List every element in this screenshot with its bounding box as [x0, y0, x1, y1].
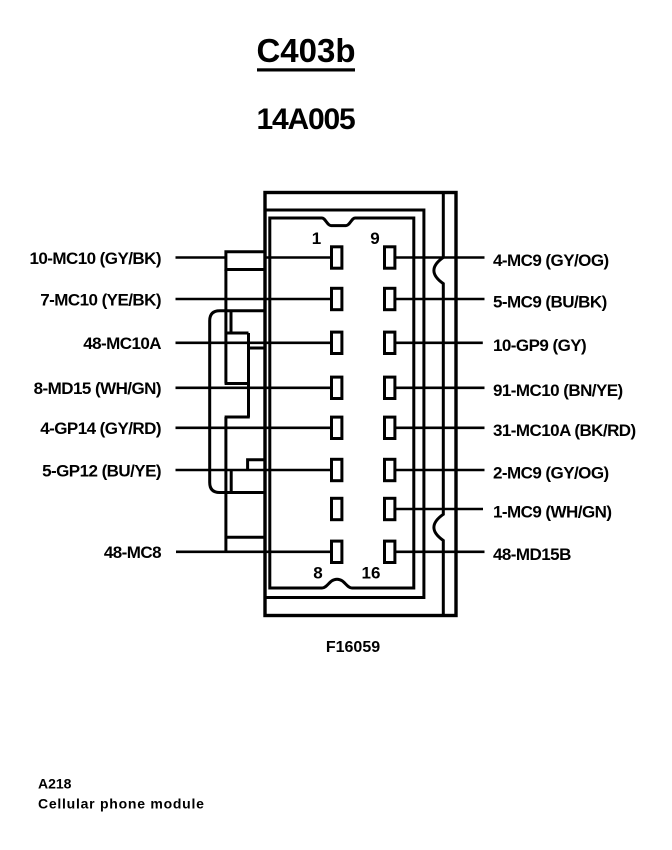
wire left row3 (to pin 3) [176, 341, 332, 344]
pin 4 [332, 377, 342, 398]
svg-text:7-MC10 (YE/BK): 7-MC10 (YE/BK) [40, 290, 161, 309]
svg-text:91-MC10 (BN/YE): 91-MC10 (BN/YE) [493, 381, 623, 400]
pin 10 [385, 288, 395, 309]
pin 12 [385, 377, 395, 398]
connector housing (keyed inner rectangle) [270, 218, 414, 588]
pin 6 [332, 459, 342, 480]
pin 14 [385, 459, 395, 480]
wire right row4 (to pin 12) [395, 386, 485, 389]
wire right row8 (to pin 16) [395, 550, 485, 553]
left strip mid segment [224, 333, 227, 384]
connector outer shell [265, 193, 456, 616]
svg-text:A218: A218 [38, 776, 72, 792]
step tab vertical at clip top [230, 311, 233, 333]
left mounting strip upper edge [224, 270, 227, 334]
pin 15 [385, 498, 395, 519]
pin 11 [385, 332, 395, 353]
step ledge under row3 [249, 347, 266, 350]
strip vertical row6 to clip bottom [230, 470, 233, 493]
svg-text:10-GP9 (GY): 10-GP9 (GY) [493, 336, 586, 355]
svg-text:8: 8 [313, 564, 322, 583]
pin 5 [332, 417, 342, 438]
svg-text:4-GP14 (GY/RD): 4-GP14 (GY/RD) [40, 419, 161, 438]
svg-text:31-MC10A (BK/RD): 31-MC10A (BK/RD) [493, 421, 636, 440]
svg-text:8-MD15 (WH/GN): 8-MD15 (WH/GN) [34, 379, 161, 398]
pin 1 [332, 247, 342, 268]
left strip lower segment [224, 417, 227, 552]
left mounting strip top box [226, 252, 266, 270]
step ledge row4-5 [225, 416, 250, 419]
wire left row5 (to pin 5) [176, 426, 332, 429]
step near row6 [248, 460, 266, 470]
svg-text:4-MC9 (GY/OG): 4-MC9 (GY/OG) [493, 251, 609, 270]
pin 8 [332, 541, 342, 562]
pin 9 [385, 247, 395, 268]
svg-text:F16059: F16059 [326, 639, 380, 656]
wire left row4 (to pin 4) [176, 386, 332, 389]
wire right row1 (to pin 9) [395, 256, 485, 259]
wire left row2 (to pin 2) [176, 298, 332, 301]
svg-text:48-MC8: 48-MC8 [104, 543, 161, 562]
wire right row5 (to pin 13) [395, 426, 485, 429]
svg-text:5-MC9 (BU/BK): 5-MC9 (BU/BK) [493, 292, 607, 311]
svg-text:9: 9 [370, 229, 379, 248]
wire right row7 (to pin 15) [395, 508, 483, 511]
pin 13 [385, 417, 395, 438]
title C403b [256, 32, 355, 72]
svg-text:16: 16 [362, 564, 381, 583]
wire right row6 (to pin 14) [395, 469, 485, 472]
svg-text:5-GP12 (BU/YE): 5-GP12 (BU/YE) [42, 461, 161, 480]
svg-text:48-MC10A: 48-MC10A [83, 334, 161, 353]
wire left row8 (to pin 8) [176, 550, 331, 553]
svg-text:1-MC9 (WH/GN): 1-MC9 (WH/GN) [493, 502, 611, 521]
pin 3 [332, 332, 342, 353]
svg-text:1: 1 [312, 229, 321, 248]
wire left row1 (to pin 1) [176, 256, 332, 259]
right rail with detents [434, 192, 443, 615]
strip cap below clip [226, 536, 266, 539]
svg-text:Cellular phone module: Cellular phone module [38, 796, 205, 812]
step jog horizontal [225, 332, 249, 335]
svg-text:48-MD15B: 48-MD15B [493, 545, 571, 564]
step ledge above row4 [225, 382, 250, 385]
wire right row3 (to pin 11) [395, 341, 483, 344]
svg-text:2-MC9 (GY/OG): 2-MC9 (GY/OG) [493, 463, 609, 482]
svg-text:C403b: C403b [256, 32, 355, 69]
svg-text:10-MC10 (GY/BK): 10-MC10 (GY/BK) [29, 249, 161, 268]
wire right row2 (to pin 10) [395, 298, 485, 301]
pin 7 [332, 498, 342, 519]
left clip (rounded bracket) [210, 311, 266, 493]
pin 2 [332, 288, 342, 309]
svg-text:14A005: 14A005 [257, 103, 355, 136]
connector inner band [265, 210, 424, 598]
step vertical mid [247, 333, 250, 417]
wire left row6 (to pin 6) [176, 469, 332, 472]
pin 16 [385, 541, 395, 562]
